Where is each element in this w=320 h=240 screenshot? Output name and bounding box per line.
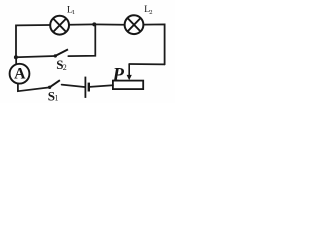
rheostat P box [113,81,143,90]
svg-text:2: 2 [63,63,67,72]
wire middle vertical from node to S2 [68,25,95,57]
wire ammeter top stub [15,57,17,64]
switch S1 [48,80,60,89]
svg-text:A: A [14,66,26,83]
node junction dot top [92,22,96,26]
switch S2 [54,49,68,57]
wire L1 to node [69,23,94,25]
svg-text:2: 2 [149,9,152,16]
wire battery to rheostat [90,85,113,87]
wire ammeter bottom to corner [18,84,50,91]
svg-text:1: 1 [55,94,59,103]
ammeter A1 [10,64,30,84]
lamp L2 [125,15,144,34]
rheostat wiper arrow [127,64,132,80]
svg-text:P: P [112,65,125,85]
battery cell [85,77,88,98]
wire L2 to top-right corner [144,24,164,64]
wire node to L2 [94,23,124,25]
svg-text:1: 1 [72,9,75,16]
wire right horizontal to wiper [129,63,164,65]
wire S2 left [16,56,55,57]
node junction dot left [14,55,18,59]
lamp L1 [50,16,69,35]
wire S1 right to battery [62,85,85,87]
wire top-left vertical [16,25,50,57]
